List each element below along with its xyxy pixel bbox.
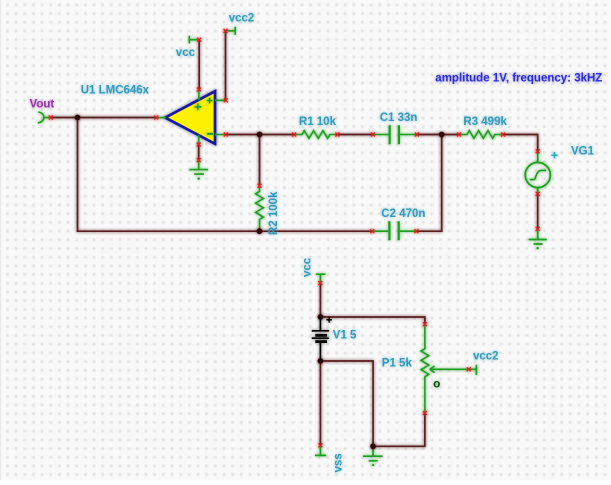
wire: ground node right then up to pot bottom — [373, 413, 425, 446]
potentiometer P1 5k body (vertical) — [421, 324, 429, 413]
pin x: Vout port — [49, 116, 53, 120]
port Vout input terminal — [38, 112, 51, 123]
pin x: R1 right — [335, 133, 339, 137]
wire: vcc rail to op-amp top power pin — [198, 40, 200, 90]
pin x: ground stub op-amp — [197, 158, 201, 162]
ground bottom — [363, 446, 383, 461]
pin x: R2 top — [258, 184, 262, 188]
pin x: C2 left — [370, 229, 374, 233]
wire: feedback bottom horizontal — [77, 230, 373, 232]
svg-text:vcc2: vcc2 — [473, 351, 499, 363]
pin x: R3 right — [501, 133, 505, 137]
wire: node on minus line down to R2 top — [259, 135, 261, 186]
pin x: op-amp minus input — [224, 133, 228, 137]
pin x: VG1 top — [536, 149, 540, 153]
pin x: R3 left — [457, 133, 461, 137]
capacitor C2 470n body — [372, 230, 416, 232]
svg-text:amplitude 1V, frequency: 3kHZ: amplitude 1V, frequency: 3kHZ — [435, 72, 602, 84]
node junction dot minus line / R2 top — [257, 132, 263, 138]
node B junction dot C1/R3 — [439, 132, 445, 138]
resistor R3 499k body — [459, 131, 503, 139]
capacitor C1 33n body — [373, 134, 417, 136]
pin x: op-amp output — [154, 116, 158, 120]
pin x: C1 right — [415, 133, 419, 137]
wire: feedback left vertical — [77, 118, 79, 232]
wire: Vout port to node A to op-amp output — [50, 117, 157, 119]
jumper vcc top — [189, 36, 199, 44]
resistor R1 10k body — [294, 131, 337, 139]
wire: vcc2 rail to op-amp plus input pin — [225, 31, 227, 101]
jumper vcc2 top — [226, 27, 236, 35]
wire: vcc jumper down to battery top node — [319, 283, 321, 317]
pin x: C2 right — [414, 229, 418, 233]
wire: C1 to node B to R3 — [417, 134, 459, 136]
wire: battery top node right and down to pot top — [320, 317, 425, 324]
op-amp U1 triangle body — [165, 91, 215, 144]
pin x: pot P1 bottom — [423, 411, 427, 415]
svg-text:C2 470n: C2 470n — [381, 208, 425, 220]
jumper vss — [315, 445, 326, 455]
svg-text:VG1: VG1 — [571, 145, 595, 157]
battery V1 plus marker — [326, 317, 332, 323]
generator VG1 plus marker — [551, 152, 557, 158]
pin x: R1 left — [292, 133, 296, 137]
wire: battery bottom node down to vss jumper — [319, 361, 321, 445]
svg-text:vss: vss — [333, 453, 345, 472]
svg-text:C1 33n: C1 33n — [380, 112, 418, 124]
node junction dot battery plus — [318, 314, 324, 320]
pin x: vcc2 jumper — [224, 29, 228, 33]
op-amp U1 pin stubs — [156, 90, 226, 145]
potentiometer P1 wiper arrow — [430, 366, 469, 373]
svg-text:o: o — [433, 379, 440, 391]
jumper vcc bottom — [316, 274, 326, 283]
pin x: vcc jumper — [197, 38, 201, 42]
label amplitude note — [435, 72, 602, 84]
svg-text:vcc: vcc — [176, 47, 196, 59]
svg-text:R2 100k: R2 100k — [268, 191, 280, 235]
label Vout — [30, 98, 55, 110]
pin x: wiper to vcc2 — [467, 367, 471, 371]
node junction dot battery minus — [318, 358, 324, 364]
wire: R1 to C1 — [337, 134, 373, 136]
generator VG1 symbol — [537, 151, 539, 195]
svg-text:U1 LMC646x: U1 LMC646x — [81, 85, 150, 97]
ground below op-amp — [189, 160, 208, 175]
svg-text:Vout: Vout — [30, 98, 55, 110]
wire: VG1 bottom to ground — [537, 194, 539, 229]
pin x: op-amp top power — [197, 88, 201, 92]
wire: C2 right to riser up to minus line — [416, 135, 441, 232]
svg-text:V1 5: V1 5 — [333, 330, 357, 342]
pin x: op-amp plus input — [224, 98, 228, 102]
battery V1 symbol — [319, 317, 321, 361]
svg-text:R1 10k: R1 10k — [299, 116, 337, 128]
op-amp U1 plus marker near power pin — [195, 104, 202, 111]
svg-text:vcc: vcc — [302, 257, 314, 277]
wire: op-amp bottom power pin to ground — [198, 145, 200, 161]
wire: R3 to VG1 top — [503, 135, 538, 152]
op-amp U1 minus marker — [207, 133, 213, 135]
label o wiper terminal — [433, 379, 440, 391]
pin x: op-amp bottom power — [197, 143, 201, 147]
pin x: VG1 bottom — [536, 192, 540, 196]
wire: battery bottom node right then down to ground node — [320, 361, 373, 446]
svg-text:R3 499k: R3 499k — [463, 116, 507, 128]
op-amp U1 plus marker near input pin — [207, 98, 213, 104]
node A junction dot — [75, 115, 81, 121]
pin x: pot P1 top — [423, 322, 427, 326]
pin x: ground stub VG1 — [536, 227, 540, 231]
node junction dot feedback / R2 bottom — [257, 228, 263, 234]
ground below VG1 — [529, 229, 547, 244]
jumper vcc2 right — [469, 365, 477, 375]
node junction dot ground bottom — [370, 443, 376, 449]
pin x: vss jumper — [318, 443, 322, 447]
pin x: vcc bottom jumper — [318, 281, 322, 285]
resistor R2 100k body (vertical) — [256, 186, 264, 231]
svg-text:vcc2: vcc2 — [229, 13, 255, 25]
pin x: C1 left — [371, 133, 375, 137]
wire: op-amp minus input to R1 — [226, 134, 294, 136]
svg-text:P1 5k: P1 5k — [382, 358, 413, 370]
